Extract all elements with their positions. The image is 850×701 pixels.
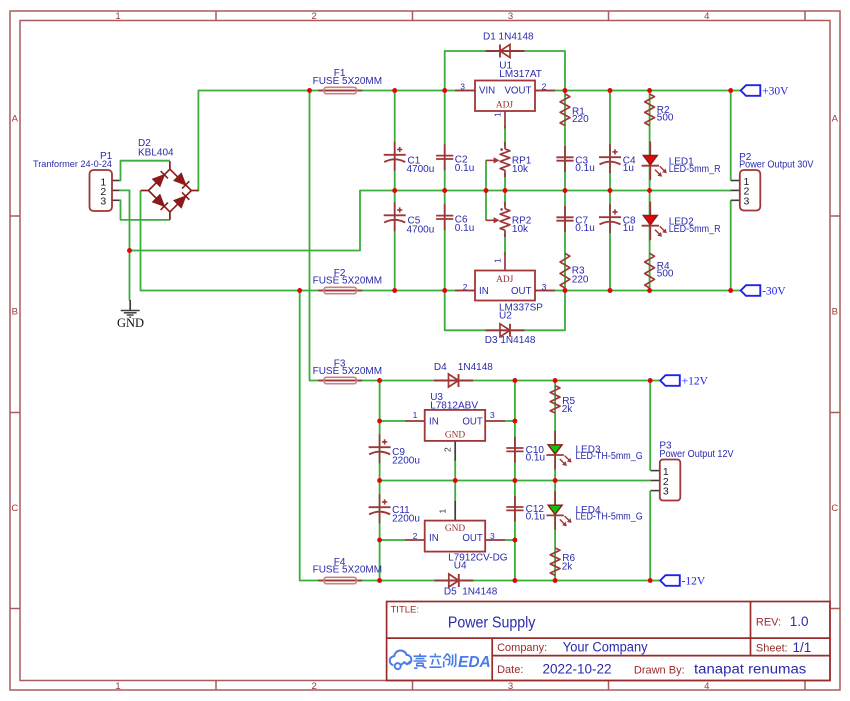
junction at (610,290.5) [608, 288, 613, 293]
capacitor C3 [564, 146, 566, 172]
svg-text:D1 1N4148: D1 1N4148 [483, 31, 534, 42]
wire -30V rail [141, 191, 741, 291]
svg-text:10k: 10k [512, 224, 529, 235]
svg-text:1u: 1u [623, 163, 634, 174]
svg-text:220: 220 [572, 275, 589, 286]
U1 VIN pin stub [455, 90, 475, 92]
junction at (379.6,540) [377, 538, 382, 543]
wire D3 bypass loop [445, 291, 565, 331]
wire column R1/C3/C7/R3 [564, 91, 566, 291]
svg-text:OUT: OUT [462, 533, 483, 544]
diode D4 [434, 380, 473, 382]
frame row ticks left [10, 215, 20, 217]
junction at (555.1,580.5) [553, 578, 558, 583]
svg-text:KBL404: KBL404 [138, 148, 174, 159]
wire 12V 0V rail [380, 480, 651, 482]
potentiometer RP2 [504, 202, 506, 209]
junction at (649.6,290.5) [647, 288, 652, 293]
junction at (555.1,380.5) [553, 378, 558, 383]
wire +30V rail [197, 91, 741, 191]
svg-text:Sheet:: Sheet: [756, 642, 788, 654]
wire U3 IN [380, 420, 405, 422]
svg-text:OUT: OUT [511, 286, 532, 297]
svg-text:ADJ: ADJ [496, 275, 514, 285]
capacitor C6 [444, 204, 446, 230]
svg-text:Drawn By:: Drawn By: [634, 664, 685, 676]
svg-text:C: C [11, 503, 18, 514]
wire GND trunk and 0V rail [130, 191, 732, 251]
svg-text:3: 3 [663, 486, 669, 498]
U2 ADJ pin stub [504, 253, 506, 271]
svg-text:-12V: -12V [682, 576, 706, 588]
junction at (455.2,480.5) [453, 478, 458, 483]
svg-text:Date:: Date: [497, 664, 523, 676]
svg-text:4: 4 [704, 11, 709, 22]
frame column ticks top [215, 11, 217, 21]
resistor R1 [560, 94, 570, 126]
svg-text:LED-TH-5mm_G: LED-TH-5mm_G [576, 451, 643, 462]
svg-text:2200u: 2200u [392, 456, 420, 467]
capacitor C4 [609, 144, 611, 173]
svg-text:FUSE 5X20MM: FUSE 5X20MM [313, 76, 382, 87]
junction at (730.7,90.5) [728, 88, 733, 93]
regulator U1 LM317AT [475, 81, 535, 112]
svg-text:Power Output 30V: Power Output 30V [739, 160, 814, 171]
junction at (379.6,580.5) [377, 578, 382, 583]
svg-text:IN: IN [429, 533, 439, 544]
junction at (379.6,480.5) [377, 478, 382, 483]
svg-text:VIN: VIN [479, 85, 495, 96]
wire 12V column R5/LED3/LED4/R6 [554, 381, 556, 581]
svg-text:0.1u: 0.1u [455, 223, 474, 234]
connector P3 [660, 460, 681, 501]
fuse F4 [318, 580, 362, 582]
svg-text:U2: U2 [499, 311, 512, 322]
svg-text:2: 2 [312, 11, 317, 22]
svg-text:2: 2 [463, 282, 468, 292]
U1 VOUT pin stub [535, 90, 555, 92]
wire P3 pin1 drop [649, 381, 651, 471]
svg-text:3: 3 [508, 681, 513, 692]
svg-text:GND: GND [445, 430, 466, 440]
junction at (514.9,480.5) [512, 478, 517, 483]
connector P1 [90, 170, 113, 211]
capacitor C12 [514, 496, 516, 522]
junction at (486,190.5) [484, 188, 489, 193]
svg-text:2k: 2k [562, 404, 574, 415]
junction at (650.2,380.5) [648, 378, 653, 383]
junction at (514.9,540) [512, 538, 517, 543]
junction at (610,190.5) [608, 188, 613, 193]
junction at (565,90.5) [563, 88, 568, 93]
U2 OUT pin stub [535, 290, 555, 292]
LED2 [649, 202, 651, 241]
svg-text:1: 1 [115, 681, 120, 692]
svg-text:1: 1 [115, 11, 120, 22]
capacitor C1 [394, 142, 396, 171]
junction at (394.7,290.5) [392, 288, 397, 293]
svg-text:4700u: 4700u [407, 224, 435, 235]
svg-text:FUSE 5X20MM: FUSE 5X20MM [313, 276, 382, 287]
wire U3 OUT [505, 420, 515, 422]
svg-text:2022-10-22: 2022-10-22 [543, 661, 612, 676]
junction at (394.7,190.5) [392, 188, 397, 193]
U4 GND pin stub [454, 501, 456, 521]
svg-text:ADJ: ADJ [496, 100, 514, 110]
U2 IN pin stub [455, 290, 475, 292]
svg-text:+12V: +12V [682, 376, 709, 388]
svg-text:0.1u: 0.1u [575, 223, 594, 234]
svg-text:0.1u: 0.1u [526, 452, 545, 463]
capacitor C2 [444, 144, 446, 170]
svg-text:220: 220 [572, 114, 589, 125]
svg-text:VOUT: VOUT [504, 85, 531, 96]
svg-text:REV:: REV: [756, 616, 781, 628]
wire -V unregulated to F4 / -12V rail [300, 291, 661, 581]
net flag +30V [741, 85, 761, 96]
junction at (610,90.5) [608, 88, 613, 93]
wire P2 pin3 drop [730, 200, 732, 290]
bridge rectifier D2 [169, 161, 171, 169]
wire P1 pin1 to bridge top [119, 161, 169, 181]
junction at (514.9,580.5) [512, 578, 517, 583]
fuse F2 [318, 290, 362, 292]
svg-text:A: A [12, 113, 19, 124]
svg-text:LED-5mm_R: LED-5mm_R [669, 224, 721, 235]
junction at (649.6,90.5) [647, 88, 652, 93]
svg-text:TITLE:: TITLE: [391, 604, 420, 615]
regulator U2 LM337SP [475, 271, 535, 301]
svg-text:3: 3 [490, 531, 495, 541]
wire P1 pin2 to GND trunk [119, 190, 129, 250]
junction at (444.7,290.5) [442, 288, 447, 293]
junction at (505,190.5) [503, 188, 508, 193]
wire U4 OUT [505, 539, 515, 541]
svg-text:OUT: OUT [462, 416, 483, 427]
junction at (514.9,421) [512, 419, 517, 424]
junction at (650.2,580.5) [648, 578, 653, 583]
wire column R2/LED1/LED2/R4 [649, 91, 651, 291]
U1 ADJ pin stub [504, 111, 506, 129]
wire U1 ADJ / RP column segments [504, 126, 506, 146]
wire D1 bypass loop [445, 51, 565, 91]
svg-text:B: B [832, 307, 838, 318]
U3 GND pin stub [454, 441, 456, 461]
capacitor C10 [514, 437, 516, 463]
svg-text:tanapat renumas: tanapat renumas [694, 661, 807, 676]
wire P3 pin3 drop [649, 491, 651, 581]
wire U4 IN [380, 539, 405, 541]
junction at (129.5,250.5) [127, 248, 132, 253]
LED4 [554, 491, 556, 530]
U3 OUT pin stub [485, 420, 505, 422]
P1 pin stubs [112, 180, 119, 182]
capacitor C9 [379, 434, 381, 463]
svg-text:+30V: +30V [762, 86, 789, 98]
svg-text:4: 4 [704, 681, 709, 692]
svg-text:LM317AT: LM317AT [499, 69, 542, 80]
svg-text:2: 2 [413, 531, 418, 541]
ground symbol GND [129, 300, 131, 310]
diode D5 [434, 580, 473, 582]
junction at (394.7,90.5) [392, 88, 397, 93]
diode D1 [486, 50, 525, 52]
svg-text:C: C [831, 503, 838, 514]
svg-text:B: B [12, 307, 18, 318]
resistor R5 [550, 386, 560, 413]
LED3 [554, 431, 556, 470]
wire column C1/C5 [394, 91, 396, 291]
connector P2 [740, 170, 761, 211]
svg-text:1: 1 [493, 258, 503, 263]
net flag -30V [741, 285, 761, 296]
junction at (565,190.5) [563, 188, 568, 193]
svg-text:Your Company: Your Company [563, 639, 648, 654]
fuse F3 [318, 380, 362, 382]
svg-text:-30V: -30V [762, 286, 786, 298]
diode D3 [486, 329, 525, 331]
junction at (514.9,380.5) [512, 378, 517, 383]
regulator U3 L7812ABV [425, 410, 486, 441]
svg-text:IN: IN [429, 416, 439, 427]
svg-text:1u: 1u [623, 223, 634, 234]
svg-text:3: 3 [460, 82, 465, 92]
resistor R2 [645, 94, 655, 126]
regulator U4 L7912CV-DG [425, 521, 486, 552]
svg-text:Company:: Company: [497, 642, 547, 654]
svg-text:IN: IN [479, 286, 489, 297]
junction at (730.7,290.5) [728, 288, 733, 293]
svg-text:2: 2 [443, 447, 453, 452]
wire +V unregulated to F3 / +12V rail [310, 91, 661, 381]
U4 IN pin stub [405, 539, 425, 541]
svg-text:2k: 2k [562, 561, 574, 572]
capacitor C7 [564, 206, 566, 232]
svg-text:EDA: EDA [458, 654, 491, 671]
U3 IN pin stub [405, 420, 425, 422]
svg-text:3: 3 [508, 11, 513, 22]
wire 12V column C9/C11 [379, 381, 381, 581]
svg-text:D4 1N4148: D4 1N4148 [434, 362, 493, 373]
fuse F1 [318, 90, 362, 92]
wire 12V column C10/C12 [514, 381, 516, 581]
P3 pin stubs [651, 470, 660, 472]
svg-text:1: 1 [413, 410, 418, 420]
svg-text:Power Supply: Power Supply [448, 615, 536, 632]
svg-text:0.1u: 0.1u [455, 163, 474, 174]
wire column C2/C6 [444, 91, 446, 291]
frame column ticks bottom [215, 681, 217, 691]
potentiometer RP1 [504, 142, 506, 149]
resistor R6 [550, 548, 560, 575]
svg-text:3: 3 [490, 410, 495, 420]
wire U4 GND [454, 481, 456, 503]
junction at (555.1,480.5) [553, 478, 558, 483]
junction at (444.7,90.5) [442, 88, 447, 93]
wire column C4/C8 [609, 91, 611, 291]
wire P1 pin3 to bridge bottom [119, 200, 169, 220]
svg-text:3: 3 [100, 195, 106, 207]
svg-text:1/1: 1/1 [793, 640, 812, 655]
svg-text:FUSE 5X20MM: FUSE 5X20MM [313, 366, 382, 377]
title block border [387, 602, 830, 681]
svg-text:2200u: 2200u [392, 514, 420, 525]
svg-text:0.1u: 0.1u [575, 163, 594, 174]
junction at (299.7,290.5) [297, 288, 302, 293]
svg-text:3: 3 [542, 282, 547, 292]
junction at (309.5,90.5) [307, 88, 312, 93]
svg-text:1: 1 [438, 509, 448, 514]
svg-text:2: 2 [312, 681, 317, 692]
junction at (649.6,190.5) [647, 188, 652, 193]
capacitor C8 [609, 204, 611, 233]
svg-text:L7812ABV: L7812ABV [430, 400, 478, 411]
svg-text:D3 1N4148: D3 1N4148 [485, 335, 536, 346]
junction at (379.6,380.5) [377, 378, 382, 383]
wire P2 pin1 drop [730, 91, 732, 181]
svg-text:2: 2 [542, 82, 547, 92]
P2 pin stubs [731, 180, 740, 182]
svg-text:10k: 10k [512, 164, 529, 175]
resistor R4 [645, 253, 655, 288]
svg-text:500: 500 [657, 269, 674, 280]
resistor R3 [560, 253, 570, 288]
svg-text:4700u: 4700u [407, 164, 435, 175]
wire U3 GND [454, 459, 456, 481]
LED1 [649, 142, 651, 181]
net flag -12V [660, 575, 680, 586]
svg-text:LED-5mm_R: LED-5mm_R [669, 164, 721, 175]
svg-text:Power Output 12V: Power Output 12V [659, 449, 733, 460]
svg-text:LED-TH-5mm_G: LED-TH-5mm_G [576, 512, 643, 523]
svg-text:FUSE 5X20MM: FUSE 5X20MM [313, 564, 382, 575]
junction at (444.7,190.5) [442, 188, 447, 193]
frame row ticks right [830, 215, 840, 217]
logo JLC EDA cloud [390, 650, 412, 669]
svg-text:A: A [832, 113, 839, 124]
svg-text:0.1u: 0.1u [526, 511, 545, 522]
junction at (565,290.5) [563, 288, 568, 293]
capacitor C5 [394, 202, 396, 231]
wire GND drop [129, 251, 131, 301]
U4 OUT pin stub [485, 539, 505, 541]
svg-text:500: 500 [657, 112, 674, 123]
logo chinese characters [414, 653, 456, 668]
svg-text:U4: U4 [454, 561, 467, 572]
capacitor C11 [379, 494, 381, 523]
svg-text:D5 1N4148: D5 1N4148 [444, 586, 498, 597]
svg-text:GND: GND [117, 316, 144, 330]
svg-text:1: 1 [493, 112, 503, 117]
net flag +12V [660, 375, 680, 386]
svg-text:Tranformer 24-0-24: Tranformer 24-0-24 [33, 158, 112, 169]
junction at (379.6,421) [377, 419, 382, 424]
wire wiper column [485, 160, 487, 220]
svg-text:1.0: 1.0 [790, 614, 809, 629]
svg-text:3: 3 [743, 195, 749, 207]
